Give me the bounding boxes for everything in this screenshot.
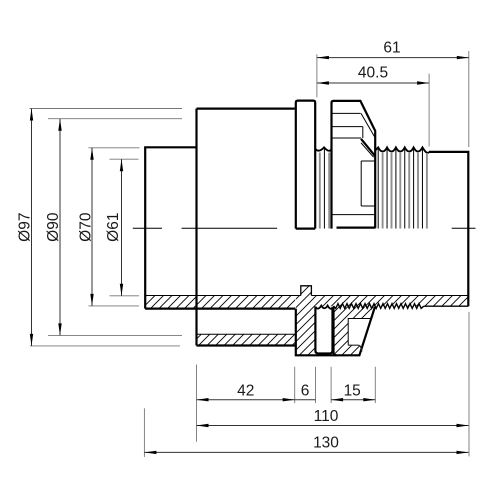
hatch: nut block with trapezoid slot hole (section) — [334, 306, 375, 355]
dimension 40.5 (top) — [317, 64, 429, 146]
nut face lines (thin) — [332, 113, 375, 214]
nut chamfer inner thin diagonals — [361, 113, 374, 157]
svg-text:42: 42 — [237, 382, 254, 399]
trapezoid slot hole bottom with rounded notch corner — [348, 345, 362, 351]
thread flank line (flange-nut gap) — [323, 149, 325, 229]
body outline — [197, 109, 295, 346]
dimension Ø61 — [105, 159, 139, 296]
svg-text:40.5: 40.5 — [358, 64, 388, 81]
svg-text:Ø70: Ø70 — [77, 212, 94, 242]
svg-text:Ø90: Ø90 — [45, 212, 62, 242]
dimension Ø90 — [45, 119, 182, 336]
male thread flank gray bands — [383, 153, 427, 229]
nut section sawtooth (thread engagement) — [334, 304, 424, 309]
svg-text:Ø97: Ø97 — [16, 213, 33, 242]
svg-text:110: 110 — [314, 408, 339, 425]
wire: centerline dash-dot — [133, 227, 476, 229]
dimension 61 (top) — [317, 39, 469, 147]
body OD bottom edge (section) — [197, 344, 296, 346]
nut chamfer lower rib (thick diagonal) — [361, 139, 375, 156]
svg-text:Ø61: Ø61 — [105, 213, 122, 242]
hatch: male pipe wall right strip (section) — [315, 296, 468, 307]
dimension Ø97 — [16, 109, 182, 346]
union nut (top half exterior) — [332, 101, 376, 229]
dimension 110 (bottom) — [197, 312, 470, 456]
slot walls (section) — [315, 307, 332, 354]
hatch: spigot/pipe wall strip (section) — [145, 296, 295, 309]
dimension Ø70 — [77, 148, 139, 306]
flange (top half) — [296, 101, 315, 229]
svg-text:15: 15 — [344, 382, 361, 399]
svg-text:6: 6 — [301, 382, 310, 399]
spigot wall bottom edge (section) — [145, 308, 295, 310]
spigot (left socket spigot) outline — [145, 147, 196, 308]
slot between flange and nut (section): wavy top — [315, 306, 332, 309]
body socket ID line (section, thin) — [197, 333, 296, 335]
thread root smooth line right (section strip bottom) — [424, 305, 469, 307]
dimension 130 (bottom) — [144, 408, 468, 457]
internal stop tab outline — [301, 286, 312, 296]
svg-text:130: 130 — [313, 435, 339, 452]
hatch: flange block (section) — [296, 296, 315, 356]
nut block (section) left edge — [334, 307, 337, 356]
trapezoid slot hole (section) thin edges — [348, 319, 371, 346]
male thread flank lines — [378, 149, 422, 229]
flange block (section) left edge + bottom web to nut bottom — [296, 307, 375, 355]
dimension 42 and 6 (bottom) — [197, 365, 316, 442]
thread flank gray bands (flange-nut gap) — [320, 153, 329, 229]
hatch: internal stop tab on flange — [301, 286, 312, 296]
male thread crest (scalloped) — [375, 147, 429, 152]
pilot end top edge + right end face — [429, 152, 468, 306]
svg-text:61: 61 — [383, 39, 400, 56]
hatch: body outer wall (section) — [197, 334, 296, 345]
thread crest between flange and nut (scalloped) — [315, 147, 331, 150]
dimension 15 (bottom) — [331, 367, 375, 403]
bore line Ø61 (section, thin) — [145, 295, 468, 297]
